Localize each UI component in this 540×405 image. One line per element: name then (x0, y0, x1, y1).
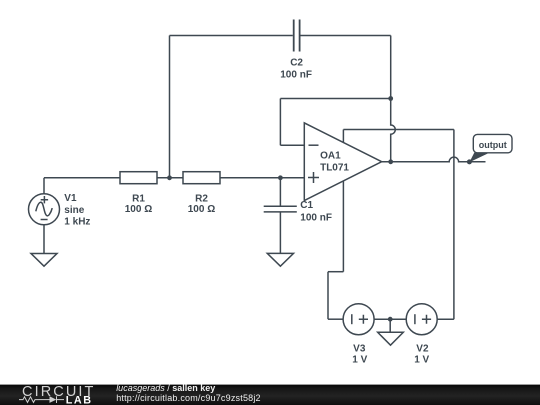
wire to V2 right terminal (437, 318, 454, 320)
V2 minus bar (414, 314, 416, 324)
wire node A vertical up to C2 (169, 36, 171, 178)
wire V+ down right side (453, 130, 455, 320)
V3 plus marker (359, 315, 368, 324)
wire C2 to top right corner (300, 35, 390, 37)
svg-text:100 Ω: 100 Ω (125, 204, 152, 215)
node junction output (388, 159, 393, 164)
wire feedback to - input (280, 144, 304, 146)
svg-text:R2: R2 (195, 193, 208, 204)
ground (C1) (267, 253, 293, 266)
wire V1 bottom stub (43, 225, 45, 254)
CircuitLab logo resistor-diode glyph (19, 396, 64, 403)
svg-text:OA1: OA1 (320, 151, 341, 162)
V2 plus marker (422, 315, 431, 324)
voltage source V1 circle (29, 194, 60, 225)
wire V1 top vertical (43, 178, 45, 194)
resistor R1 (120, 172, 157, 184)
svg-text:1 V: 1 V (352, 355, 367, 366)
wire feedback vertical (279, 99, 281, 146)
output flag balloon (473, 134, 512, 152)
svg-text:100 Ω: 100 Ω (188, 204, 215, 215)
node junction supply ground (388, 317, 393, 322)
svg-text:100 nF: 100 nF (280, 69, 312, 80)
wire input to R1 (44, 177, 120, 179)
ground (supply) (378, 332, 404, 345)
svg-text:http://circuitlab.com/c9u7c9zs: http://circuitlab.com/c9u7c9zst58j2 (116, 393, 261, 403)
V1 sine symbol (36, 202, 52, 216)
wire feedback drop to node B (390, 36, 392, 99)
V1 plus marker (41, 196, 48, 203)
wire to V3 left terminal (328, 318, 343, 320)
wire V3 to V2 (374, 318, 406, 320)
wire feedback down with hop over supply wire (391, 99, 396, 162)
wire top left to C2 (170, 35, 293, 37)
capacitor C1 (264, 206, 297, 212)
capacitor C2 (294, 20, 300, 52)
wire C1 bottom stub (279, 212, 281, 254)
wire V+ pin stub (342, 130, 344, 143)
svg-text:100 nF: 100 nF (300, 212, 332, 223)
CircuitLab logo diode triangle (50, 396, 57, 403)
ground (V1) (31, 254, 57, 267)
wire V- down to V3 (327, 272, 329, 320)
V3 minus bar (351, 314, 353, 324)
svg-text:V1: V1 (64, 193, 77, 204)
svg-text:lucasgerads / sallen key: lucasgerads / sallen key (116, 383, 215, 393)
svg-text:1 V: 1 V (414, 355, 429, 366)
svg-text:1 kHz: 1 kHz (64, 216, 90, 227)
svg-text:V3: V3 (353, 343, 366, 354)
svg-text:C1: C1 (300, 200, 313, 211)
node junction output flag (467, 159, 472, 164)
wire V- pin stub down (342, 181, 344, 272)
footer bar (0, 385, 540, 405)
wire supply ground stub (389, 319, 391, 332)
svg-text:sine: sine (64, 205, 84, 216)
voltage source V2 circle (406, 304, 437, 335)
wire V+ horizontal (343, 129, 454, 131)
wire feedback horizontal (280, 98, 390, 100)
node junction feedback top (388, 96, 393, 101)
svg-text:R1: R1 (132, 193, 145, 204)
wire R1 to R2 (157, 177, 183, 179)
resistor R2 (183, 172, 220, 184)
op-amp OA1 triangle (304, 123, 381, 201)
wire V- jog left (328, 271, 343, 273)
svg-text:output: output (479, 140, 507, 150)
V1 minus marker (41, 219, 48, 221)
OA1 minus input marker (309, 144, 319, 146)
node junction at R1/R2 (167, 175, 172, 180)
svg-text:TL071: TL071 (320, 163, 349, 174)
node junction at C1 branch (278, 175, 283, 180)
wire C1 top stub (279, 178, 281, 206)
svg-text:C2: C2 (290, 58, 303, 69)
output flag tail (469, 153, 489, 163)
svg-text:LAB: LAB (66, 394, 93, 405)
OA1 plus input marker (308, 172, 319, 183)
wire op-amp output with hop over supply wire (382, 157, 486, 162)
voltage source V3 circle (343, 304, 374, 335)
svg-text:V2: V2 (416, 343, 429, 354)
wire R2 to op-amp + input (220, 177, 304, 179)
